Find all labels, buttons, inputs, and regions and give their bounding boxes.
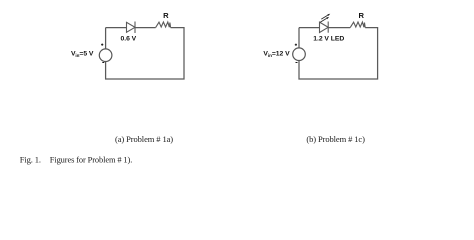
svg-text:Fig. 1.: Fig. 1. [20, 155, 41, 165]
svg-text:R: R [358, 11, 364, 20]
wire: left circuit loop [106, 28, 184, 79]
resistor R (left) [156, 22, 171, 28]
LED D2 [320, 22, 329, 33]
svg-text:Vin=12 V: Vin=12 V [263, 51, 290, 58]
wire: right circuit loop [299, 28, 378, 79]
resistor R (right) [350, 22, 365, 28]
svg-text:Figures for Problem # 1).: Figures for Problem # 1). [50, 156, 132, 165]
svg-text:(a) Problem # 1a): (a) Problem # 1a) [115, 134, 173, 144]
LED arrows [320, 14, 330, 23]
svg-text:Vin=5 V: Vin=5 V [71, 51, 94, 58]
voltage source V_in=12V [293, 44, 306, 63]
diode D1 [127, 22, 136, 34]
svg-text:1.2 V LED: 1.2 V LED [313, 35, 344, 42]
voltage source V_in=5V [99, 44, 112, 63]
svg-text:R: R [163, 11, 169, 20]
svg-text:0.6 V: 0.6 V [121, 35, 137, 42]
svg-text:(b) Problem # 1c): (b) Problem # 1c) [306, 134, 365, 144]
